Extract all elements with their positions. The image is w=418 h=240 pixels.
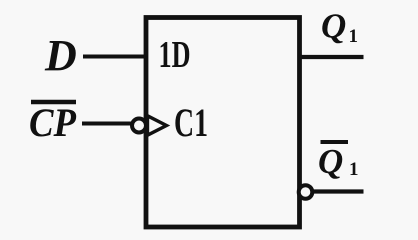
overline Qbar [321, 140, 349, 144]
clock inversion bubble [132, 119, 146, 133]
svg-text:C1: C1 [174, 100, 208, 145]
inversion bubble Qbar output [299, 185, 313, 199]
svg-text:D: D [44, 31, 77, 80]
svg-text:CP: CP [29, 100, 77, 145]
svg-text:Q: Q [318, 142, 343, 181]
clock dynamic-input triangle [148, 116, 167, 135]
wire D input [83, 55, 146, 59]
flip-flop body U1 [146, 18, 300, 228]
wire CP input [82, 122, 132, 126]
svg-text:1: 1 [349, 26, 359, 47]
wire Qbar output [313, 189, 364, 193]
svg-text:1D: 1D [159, 34, 191, 76]
overline CP [31, 100, 76, 104]
svg-text:1: 1 [349, 159, 359, 180]
wire Q1 output [300, 55, 364, 59]
svg-text:Q: Q [321, 7, 346, 46]
